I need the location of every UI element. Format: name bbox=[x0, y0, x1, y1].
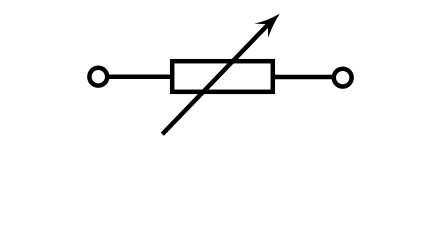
terminal circle right bbox=[334, 69, 352, 87]
resistor body rectangle bbox=[172, 61, 273, 92]
wire bbox=[107, 74, 173, 79]
adjustment arrow shaft bbox=[162, 20, 272, 134]
adjustment arrow head bbox=[254, 14, 280, 38]
wire bbox=[273, 75, 335, 80]
terminal circle left bbox=[89, 68, 107, 86]
